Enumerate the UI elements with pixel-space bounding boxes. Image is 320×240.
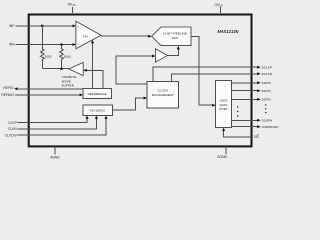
svg-text:D1P/N: D1P/N [262,89,271,93]
svg-text:+: + [77,25,79,29]
svg-text:CLKDIV: CLKDIV [5,134,18,138]
svg-text:LVDS: LVDS [220,98,228,102]
svg-text:T/H: T/H [83,34,88,38]
svg-text:REFERENCE: REFERENCE [88,92,107,96]
svg-text:DCLKP: DCLKP [262,65,272,69]
svg-text:CLKP: CLKP [8,121,17,125]
svg-text:D2P/N: D2P/N [262,98,271,102]
svg-text:AGND: AGND [50,155,60,159]
svg-text:OGND: OGND [217,155,228,159]
svg-text:D0P/N: D0P/N [262,81,271,85]
svg-text:−: − [78,43,80,47]
svg-text:INP: INP [9,24,15,28]
svg-text:DIV1/DIV2: DIV1/DIV2 [90,108,105,112]
svg-text:CLKN: CLKN [8,127,17,131]
svg-text:T/B: T/B [253,135,259,139]
svg-text:REFIO: REFIO [3,86,14,90]
svg-text:CLOCK: CLOCK [157,89,169,93]
svg-text:CC: CC [73,5,77,7]
svg-text:DATA: DATA [220,103,229,107]
svg-text:500Ω: 500Ω [64,55,72,59]
svg-text:MANAGEMENT: MANAGEMENT [152,93,174,97]
svg-text:DD: DD [219,6,223,8]
svg-text:500Ω: 500Ω [45,55,53,59]
svg-text:DCLKN: DCLKN [262,72,273,76]
svg-text:MAX1213N: MAX1213N [217,29,239,34]
svg-text:ADC: ADC [172,36,179,40]
svg-text:INN: INN [9,43,15,47]
svg-text:PORT: PORT [219,107,228,111]
svg-text:BUFFER: BUFFER [62,84,75,88]
svg-text:REFADJ: REFADJ [1,93,14,97]
svg-text:DORP/DORN: DORP/DORN [262,125,279,129]
svg-text:D11P/N: D11P/N [262,119,273,123]
